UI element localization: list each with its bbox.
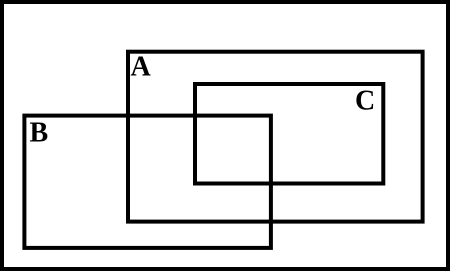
- rectangle A: [128, 52, 423, 222]
- svg-text:B: B: [30, 117, 49, 148]
- rectangle B: [24, 116, 271, 248]
- svg-text:A: A: [131, 52, 152, 83]
- rectangle C: [195, 84, 383, 184]
- svg-text:C: C: [355, 86, 375, 117]
